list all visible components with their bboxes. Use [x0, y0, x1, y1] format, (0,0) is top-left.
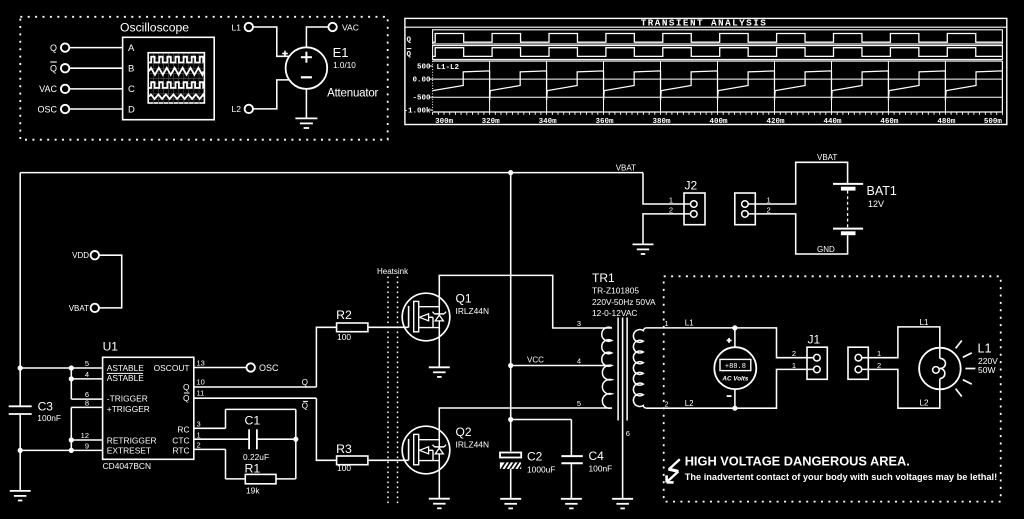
node junctions left rail [18, 365, 23, 453]
svg-text:Q: Q [407, 37, 412, 45]
svg-text:100nF: 100nF [589, 464, 613, 474]
svg-text:380m: 380m [652, 118, 671, 126]
wire VBAT vertical [510, 173, 512, 452]
J1 mate pin numbers [877, 349, 881, 370]
svg-text:GND: GND [817, 245, 835, 254]
label C1 0.22uF [243, 414, 269, 462]
node junction C4 branch [508, 417, 513, 422]
lamp rays [956, 341, 976, 397]
label C2 1000uF [527, 450, 555, 475]
connector J2 mate [735, 193, 756, 225]
svg-text:VDD: VDD [72, 251, 89, 260]
wire OSCOUT [194, 367, 247, 369]
ground [633, 244, 654, 254]
svg-text:340m: 340m [539, 118, 558, 126]
wire VDD to VBAT [99, 255, 122, 308]
wire to C4 [511, 420, 572, 456]
svg-text:440m: 440m [823, 118, 842, 126]
svg-text:-500: -500 [412, 95, 431, 103]
svg-text:A: A [128, 43, 135, 54]
svg-text:+TRIGGER: +TRIGGER [107, 404, 150, 414]
wire J1 mate pin1 to lamp L1 [862, 327, 940, 359]
svg-text:J1: J1 [808, 333, 821, 347]
svg-text:400m: 400m [709, 118, 728, 126]
oscilloscope [120, 21, 214, 120]
svg-text:C3: C3 [38, 400, 54, 414]
svg-text:RETRIGGER: RETRIGGER [107, 436, 157, 446]
svg-text:1.0/10: 1.0/10 [333, 61, 356, 70]
wire pin8 to pin12/9 [71, 407, 102, 450]
svg-text:1: 1 [877, 349, 881, 358]
wire voltmeter taps [734, 328, 736, 408]
x axis minor ticks [433, 112, 1003, 115]
svg-text:RC: RC [177, 425, 189, 435]
label E1 1.0/10 Attenuator [327, 45, 378, 100]
heatsink dotted lines [388, 277, 398, 506]
svg-text:320m: 320m [482, 118, 501, 126]
wire C1 to node [257, 409, 296, 479]
svg-text:3: 3 [577, 319, 581, 328]
node junction top rail [508, 170, 513, 175]
lamp L1 [919, 348, 961, 390]
svg-text:12-0-12VAC: 12-0-12VAC [592, 308, 637, 318]
label VBAT [817, 153, 837, 162]
label BAT1 12V [867, 184, 897, 209]
svg-text:12V: 12V [868, 199, 884, 209]
label TR-Z101805 220V-50Hz 50VA 12-0-12VAC [592, 286, 656, 318]
svg-text:IRLZ44N: IRLZ44N [456, 440, 490, 450]
svg-text:480m: 480m [937, 118, 956, 126]
terminal OSC [247, 363, 280, 373]
svg-text:1: 1 [792, 361, 796, 370]
svg-text:460m: 460m [880, 118, 899, 126]
svg-text:Oscilloscope: Oscilloscope [120, 21, 189, 35]
wire C4 to ground [570, 464, 572, 498]
svg-text:Q: Q [302, 378, 308, 387]
svg-text:R1: R1 [245, 461, 261, 475]
scope input terminal OSC [37, 104, 69, 114]
svg-text:L1: L1 [920, 318, 929, 327]
node junctions pin12/9 [69, 437, 74, 453]
svg-text:12: 12 [81, 431, 89, 440]
transformer TR1 primary winding [602, 327, 612, 408]
svg-text:ASTABLE: ASTABLE [107, 373, 144, 383]
wire pin1 CTC [194, 438, 249, 440]
node junctions voltmeter [732, 325, 737, 411]
label C3 100nF [37, 400, 61, 423]
wire [69, 47, 122, 49]
trace Q [433, 34, 1003, 43]
svg-text:Q: Q [183, 393, 190, 403]
wire Qbar riser to R3 [316, 398, 336, 460]
connector J1 mate [848, 347, 868, 379]
svg-text:The inadvertent contact of you: The inadvertent contact of your body wit… [685, 472, 998, 482]
transistor Q1 [402, 293, 450, 341]
resistor R1 [245, 474, 276, 483]
svg-text:Q1: Q1 [456, 292, 472, 306]
wire R1 to node [276, 478, 296, 480]
ground [500, 499, 521, 509]
resistor R2 [337, 323, 368, 332]
wire [305, 89, 307, 119]
ground [10, 491, 31, 501]
svg-text:5: 5 [85, 359, 89, 368]
svg-text:4: 4 [85, 370, 89, 379]
wire L2 secondary [646, 369, 813, 408]
wire TR1 pin6 to ground [622, 421, 624, 499]
y axis ticks [430, 66, 433, 110]
svg-text:VBAT: VBAT [616, 164, 636, 173]
label Q net [302, 378, 308, 387]
wire J2 mate pin1 to BAT1 + [748, 162, 847, 204]
svg-text:B: B [128, 63, 134, 74]
horizontal gridline -500 [433, 96, 1003, 98]
svg-text:VAC: VAC [342, 22, 359, 32]
svg-text:AC Volts: AC Volts [721, 376, 749, 383]
svg-text:100nF: 100nF [37, 413, 61, 423]
dotted border: high voltage dangerous area [664, 276, 1001, 501]
voltmeter AC Volts [714, 338, 756, 396]
svg-text:1000uF: 1000uF [527, 465, 555, 475]
wire E1 output to VAC [306, 27, 328, 47]
capacitor C1 [249, 429, 257, 449]
svg-text:19k: 19k [246, 486, 260, 496]
scope input terminal Q [50, 43, 69, 53]
label U1 [103, 340, 119, 354]
svg-text:TRANSIENT ANALYSIS: TRANSIENT ANALYSIS [641, 18, 768, 29]
label 2 L2 [665, 399, 695, 408]
svg-text:420m: 420m [766, 118, 785, 126]
vertical gridlines [490, 61, 946, 112]
svg-text:OSC: OSC [37, 104, 57, 114]
ground [561, 499, 582, 509]
svg-text:Q: Q [302, 402, 308, 411]
node junction VCC [508, 363, 513, 368]
svg-text:IRLZ44N: IRLZ44N [456, 306, 490, 316]
svg-text:Q: Q [407, 51, 412, 59]
svg-text:2: 2 [877, 361, 881, 370]
svg-text:0.00: 0.00 [412, 77, 431, 85]
wire VBAT top rail [20, 172, 643, 174]
label Heatsink [377, 267, 409, 276]
label L1 lamp top [920, 318, 929, 327]
wire pin4 branch [71, 368, 102, 399]
y axis labels [403, 63, 431, 115]
label CD4047BCN [103, 461, 151, 471]
svg-text:500m: 500m [984, 118, 1003, 126]
title TRANSIENT ANALYSIS [641, 18, 768, 29]
wire pin5 [20, 367, 102, 369]
wire pin9 [20, 449, 102, 451]
wire VCC to TR1 pin4 [511, 365, 612, 367]
svg-text:Q: Q [183, 382, 190, 392]
wire Q2 drain to TR1 pin5 [439, 408, 612, 440]
transient analysis plot frame [405, 18, 1007, 124]
label Qbar net [302, 401, 308, 410]
wire Q1 source to ground [438, 328, 440, 367]
U1 right pin numbers [197, 359, 205, 450]
svg-text:11: 11 [197, 389, 205, 398]
svg-text:2: 2 [665, 399, 669, 408]
svg-text:R2: R2 [336, 308, 352, 322]
svg-text:L1: L1 [978, 341, 992, 355]
svg-text:D: D [128, 104, 135, 115]
label Q [407, 37, 412, 45]
svg-text:CD4047BCN: CD4047BCN [103, 461, 151, 471]
label L1-L2 [437, 64, 460, 72]
analog plot box L1-L2 [433, 61, 1003, 112]
svg-text:Heatsink: Heatsink [377, 267, 409, 276]
svg-text:VAC: VAC [39, 84, 57, 94]
capacitor C3 [9, 406, 32, 414]
connector J1 [807, 347, 827, 379]
wire Q2 source to ground [438, 461, 440, 499]
svg-text:+88.8: +88.8 [725, 363, 746, 371]
label Qbar [407, 49, 412, 59]
voltage source E1 (attenuator) [282, 47, 327, 89]
svg-text:EXTRESET: EXTRESET [107, 446, 151, 456]
trace L1-L2 [433, 71, 1003, 100]
Qbar trace box [433, 46, 1003, 60]
ground [295, 118, 317, 128]
transformer TR1 secondary winding [633, 328, 646, 408]
svg-text:C2: C2 [527, 450, 543, 464]
svg-text:2: 2 [669, 206, 673, 215]
capacitor C4 [561, 456, 582, 463]
wire L1 to E1 + input [253, 27, 290, 56]
svg-text:4: 4 [577, 357, 581, 366]
node junction CTC [293, 437, 298, 442]
svg-text:OSCOUT: OSCOUT [154, 363, 190, 373]
resistor R3 [337, 456, 368, 465]
svg-text:9: 9 [85, 442, 89, 451]
svg-text:2: 2 [197, 441, 201, 450]
label VBAT [616, 164, 636, 173]
svg-text:C4: C4 [589, 449, 605, 463]
label R1 19k [245, 461, 261, 495]
U1 pin names [107, 363, 190, 456]
horizontal gridline 0.00 [433, 78, 1003, 80]
svg-text:Q: Q [50, 43, 57, 53]
svg-text:CTC: CTC [172, 436, 189, 446]
svg-text:VBAT: VBAT [817, 153, 837, 162]
label GND [817, 245, 835, 254]
terminal L2 [232, 104, 253, 114]
label C4 100nF [589, 449, 613, 474]
svg-text:Q2: Q2 [456, 425, 472, 439]
wire VBAT to J2 pin1 [643, 173, 691, 204]
wire L2 to E1 - input [253, 80, 290, 109]
svg-text:VBAT: VBAT [69, 304, 89, 313]
wire C2 to ground [510, 469, 512, 499]
label R3 100 [336, 442, 352, 473]
wire Qbar [194, 397, 317, 399]
svg-text:5: 5 [577, 399, 581, 408]
wire Q [194, 386, 317, 388]
wire pin3 RC [194, 409, 296, 428]
svg-text:100: 100 [337, 332, 351, 342]
label TR1 [592, 271, 615, 285]
svg-text:50W: 50W [978, 365, 995, 375]
svg-text:L2: L2 [232, 104, 242, 114]
svg-text:OSC: OSC [259, 363, 279, 373]
svg-text:TR1: TR1 [592, 271, 615, 285]
x axis labels [435, 118, 1002, 126]
svg-text:500: 500 [417, 63, 431, 71]
label R2 100 [336, 308, 352, 342]
ground [612, 499, 633, 509]
svg-text:RTC: RTC [172, 446, 189, 456]
svg-text:VCC: VCC [527, 356, 544, 365]
svg-text:100: 100 [337, 463, 351, 473]
transistor Q2 [402, 426, 450, 474]
scope input terminal VAC [39, 84, 69, 94]
svg-text:ASTABLE: ASTABLE [107, 363, 144, 373]
svg-text:C: C [128, 84, 135, 95]
svg-text:C1: C1 [245, 414, 261, 428]
label HIGH VOLTAGE DANGEROUS AREA. [685, 454, 910, 469]
dotted border: oscilloscope / attenuator test area [20, 17, 387, 140]
label J2 [685, 179, 698, 193]
svg-text:L1-L2: L1-L2 [437, 64, 460, 72]
svg-text:300m: 300m [435, 118, 454, 126]
svg-text:TR-Z101805: TR-Z101805 [592, 286, 639, 296]
trace Qbar [433, 48, 1003, 57]
svg-text:10: 10 [197, 378, 205, 387]
svg-text:220V-50Hz 50VA: 220V-50Hz 50VA [592, 297, 656, 307]
terminal L1 [232, 22, 253, 32]
svg-text:U1: U1 [103, 340, 119, 354]
label VCC [527, 356, 544, 365]
wire [69, 108, 122, 110]
pin labels 3 4 5 6 [577, 319, 630, 438]
battery BAT1 [833, 184, 863, 235]
label L2 lamp bottom [920, 398, 929, 407]
svg-text:L1: L1 [685, 318, 694, 327]
wire left vertical [19, 173, 21, 491]
wire BAT1 - to J2 mate pin2 [748, 214, 847, 254]
svg-text:-TRIGGER: -TRIGGER [107, 393, 148, 403]
J2 pin numbers [669, 196, 673, 215]
svg-text:13: 13 [197, 359, 205, 368]
label Q2 IRLZ44N [456, 425, 490, 450]
IC U1 CD4047BCN [103, 357, 194, 459]
terminal VAC [328, 22, 358, 32]
svg-text:1: 1 [669, 196, 673, 205]
label 1 L1 [665, 318, 695, 328]
scope input terminal Qbar [50, 62, 69, 74]
svg-text:1: 1 [665, 319, 669, 328]
svg-text:1: 1 [197, 430, 201, 439]
label L1 220V 50W [978, 341, 999, 375]
terminal VDD [72, 251, 99, 260]
svg-text:R3: R3 [336, 442, 352, 456]
svg-text:8: 8 [85, 399, 89, 408]
svg-text:L2: L2 [685, 399, 694, 408]
svg-text:-1.00k: -1.00k [403, 108, 431, 116]
Q trace box [433, 30, 1003, 44]
transformer TR1 core [618, 318, 627, 421]
svg-text:E1: E1 [333, 45, 349, 60]
label J1 [808, 333, 821, 347]
svg-text:6: 6 [626, 429, 630, 438]
svg-text:HIGH VOLTAGE DANGEROUS AREA.: HIGH VOLTAGE DANGEROUS AREA. [685, 454, 910, 469]
ground [429, 499, 450, 509]
svg-text:3: 3 [197, 419, 201, 428]
capacitor C2 (polarized) [500, 453, 523, 470]
wire Q1 drain to TR1 pin3 [439, 275, 612, 328]
wire pin2 RTC to R1 [194, 449, 246, 479]
svg-text:Attenuator: Attenuator [327, 88, 378, 100]
node junctions pin4/5 [69, 365, 74, 381]
lightning bolt icon [667, 459, 680, 482]
wire Q riser to R2 [316, 327, 336, 387]
J2 mate pin numbers [767, 196, 771, 215]
wire [69, 67, 122, 69]
wire [69, 88, 122, 90]
label Q1 IRLZ44N [456, 292, 490, 317]
wire R3 to Q2 gate [368, 459, 409, 461]
svg-text:360m: 360m [595, 118, 614, 126]
terminal VBAT [69, 304, 99, 313]
svg-text:BAT1: BAT1 [867, 184, 897, 198]
J1 pin numbers [792, 349, 796, 370]
svg-text:J2: J2 [685, 179, 698, 193]
svg-text:2: 2 [792, 349, 796, 358]
wire J1 mate pin2 to lamp L2 [862, 369, 940, 408]
connector J2 [684, 193, 705, 225]
wire R2 to Q1 gate [368, 326, 409, 328]
label warning subtext [685, 472, 998, 482]
ground [429, 367, 450, 377]
svg-text:Q: Q [50, 64, 57, 74]
wire L1 secondary [646, 328, 813, 358]
svg-text:L2: L2 [920, 398, 929, 407]
U1 left pin numbers [81, 359, 89, 451]
svg-text:L1: L1 [232, 22, 242, 32]
wire J2 pin2 to ground [643, 214, 691, 244]
